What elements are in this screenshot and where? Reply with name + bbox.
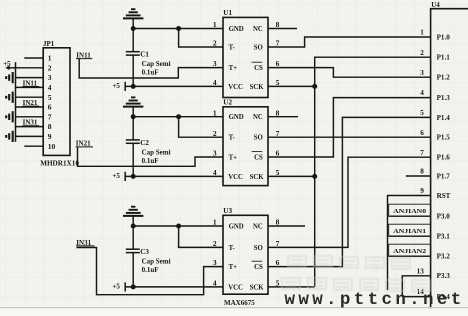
power +5 port at U2 VCC bbox=[112, 172, 125, 181]
svg-text:VCC: VCC bbox=[228, 84, 243, 91]
svg-text:5: 5 bbox=[276, 78, 280, 87]
junction at gnd rail U3 bbox=[131, 224, 136, 229]
svg-text:2: 2 bbox=[420, 49, 424, 57]
svg-text:NC: NC bbox=[253, 26, 263, 33]
svg-text:5: 5 bbox=[276, 168, 280, 177]
svg-text:7: 7 bbox=[276, 39, 280, 48]
svg-text:P1.2: P1.2 bbox=[437, 74, 451, 82]
svg-text:8: 8 bbox=[420, 168, 424, 176]
U1 left pin names bbox=[228, 26, 244, 91]
left vertical rail bbox=[15, 62, 17, 142]
IC U2 MAX6675 box bbox=[223, 107, 268, 186]
svg-text:SO: SO bbox=[254, 245, 263, 252]
wire +5 to U1 pin4 (VCC) bbox=[125, 85, 223, 87]
net label IN31 at JP1 pin 8 bbox=[22, 119, 39, 127]
wire gnd row to U1 pin1 bbox=[133, 28, 223, 30]
svg-text:T+: T+ bbox=[229, 264, 238, 271]
U3 left pin names bbox=[228, 223, 244, 291]
JP1 pin 5 wire bbox=[16, 96, 44, 98]
svg-text:U3: U3 bbox=[223, 207, 232, 215]
net label IN21 wire bbox=[76, 140, 223, 167]
svg-text:U2: U2 bbox=[223, 99, 232, 107]
svg-text:P1.4: P1.4 bbox=[437, 114, 451, 122]
U2 pin8 NC stub bbox=[268, 116, 298, 118]
ground symbol at JP1 pin 3 bbox=[6, 72, 13, 83]
svg-text:9: 9 bbox=[420, 187, 424, 195]
wire U1 CS to U4 pin3 bbox=[268, 68, 431, 78]
svg-text:0.1uF: 0.1uF bbox=[142, 69, 159, 77]
svg-text:JP1: JP1 bbox=[43, 40, 55, 48]
svg-text:1: 1 bbox=[213, 20, 217, 29]
svg-text:Cap Semi: Cap Semi bbox=[142, 148, 171, 156]
svg-text:6: 6 bbox=[276, 59, 280, 68]
svg-text:+5: +5 bbox=[112, 283, 120, 291]
svg-text:3: 3 bbox=[420, 69, 424, 77]
svg-text:VCC: VCC bbox=[228, 174, 243, 181]
power +5 port at U3 VCC bbox=[112, 282, 125, 291]
JP1 pin 8 wire bbox=[16, 126, 44, 128]
ground symbol above C1 bbox=[123, 9, 143, 28]
svg-text:4: 4 bbox=[420, 89, 424, 97]
svg-text:ANJIAN0: ANJIAN0 bbox=[393, 209, 426, 215]
svg-text:NC: NC bbox=[253, 114, 263, 121]
net label ANJIAN1 at U4 pin11 bbox=[389, 224, 431, 236]
U1 right pin numbers 8-5 bbox=[276, 20, 280, 87]
wire branch to U2 pin2 bbox=[179, 117, 223, 138]
wire U3 SCK to bus bbox=[268, 286, 315, 288]
svg-text:3: 3 bbox=[213, 149, 217, 158]
JP1 pin 1 wire bbox=[24, 57, 43, 59]
svg-text:8: 8 bbox=[48, 122, 52, 131]
svg-text:VCC: VCC bbox=[228, 284, 243, 291]
svg-text:T-: T- bbox=[229, 245, 236, 252]
wire branch to U3 pin2 bbox=[179, 226, 223, 247]
svg-text:4: 4 bbox=[213, 279, 217, 288]
svg-text:2: 2 bbox=[213, 239, 217, 248]
ground symbol above C3 bbox=[123, 207, 143, 226]
faint gray watermark blocks bbox=[282, 256, 430, 291]
ground symbol at JP1 pin 5 bbox=[6, 92, 13, 103]
capacitor C1 bbox=[126, 29, 140, 87]
svg-text:P1.1: P1.1 bbox=[437, 54, 451, 62]
U1 right pin names bbox=[250, 26, 265, 91]
svg-text:+5: +5 bbox=[112, 172, 120, 180]
wire U2 CS to U4 pin4 bbox=[268, 98, 431, 157]
svg-text:T+: T+ bbox=[229, 65, 238, 72]
svg-text:MHDR1X10: MHDR1X10 bbox=[40, 160, 79, 168]
svg-text:5: 5 bbox=[420, 109, 424, 117]
power +5 port at U1 VCC bbox=[112, 82, 125, 91]
svg-text:1: 1 bbox=[213, 108, 217, 117]
svg-text:0.1uF: 0.1uF bbox=[142, 157, 159, 165]
svg-text:SO: SO bbox=[254, 44, 263, 51]
svg-text:7: 7 bbox=[48, 112, 52, 121]
U1 pin8 NC stub bbox=[268, 28, 297, 30]
svg-text:GND: GND bbox=[229, 223, 244, 230]
light gray sheet border line bbox=[0, 307, 468, 309]
svg-text:7: 7 bbox=[420, 149, 424, 157]
svg-text:13: 13 bbox=[417, 267, 425, 275]
svg-text:6: 6 bbox=[48, 103, 52, 112]
svg-text:6: 6 bbox=[420, 129, 424, 137]
wire +5 to U3 pin4 (VCC) bbox=[125, 286, 223, 288]
JP1 pin 6 wire bbox=[16, 106, 44, 108]
IC U1 MAX6675 box bbox=[223, 17, 268, 97]
svg-text:4: 4 bbox=[213, 78, 217, 87]
svg-text:5: 5 bbox=[48, 93, 52, 102]
JP1 pin 3 wire bbox=[16, 77, 44, 79]
svg-text:3: 3 bbox=[213, 258, 217, 267]
svg-text:5: 5 bbox=[276, 279, 280, 288]
wire branch to U1 pin2 bbox=[179, 29, 223, 48]
svg-text:SCK: SCK bbox=[250, 174, 265, 181]
junction at U1 pin1/pin2 branch bbox=[176, 26, 181, 31]
svg-text:C3: C3 bbox=[140, 248, 149, 256]
svg-text:P1.7: P1.7 bbox=[437, 172, 451, 180]
svg-text:7: 7 bbox=[276, 239, 280, 248]
svg-text:2: 2 bbox=[213, 129, 217, 138]
U2 left pin names bbox=[228, 114, 244, 181]
svg-text:ANJIAN2: ANJIAN2 bbox=[393, 249, 426, 255]
U3 pin8 NC stub bbox=[268, 225, 305, 227]
net label IN11 wire bbox=[76, 51, 223, 78]
U1 left pin numbers 1-4 bbox=[213, 20, 217, 87]
svg-text:10: 10 bbox=[48, 142, 56, 151]
wire gnd row to U3 pin1 bbox=[133, 225, 223, 227]
svg-text:SO: SO bbox=[254, 135, 263, 142]
svg-text:P3.3: P3.3 bbox=[437, 272, 451, 280]
svg-text:GND: GND bbox=[229, 26, 244, 33]
svg-text:0.1uF: 0.1uF bbox=[142, 266, 159, 274]
connector U4 box bbox=[431, 9, 468, 316]
U4 pin8 stub bbox=[406, 175, 431, 177]
svg-text:6: 6 bbox=[276, 149, 280, 158]
net label IN11 at JP1 pin 4 bbox=[22, 79, 39, 87]
wire U2 SO to U4 pin6 bbox=[268, 136, 431, 138]
JP1 pin 9 wire bbox=[16, 135, 44, 137]
svg-text:7: 7 bbox=[276, 129, 280, 138]
power +5 port at JP1 pin 2 bbox=[3, 60, 15, 70]
U3 right pin names bbox=[250, 223, 265, 291]
svg-text:GND: GND bbox=[229, 114, 244, 121]
U4 pin names bbox=[437, 33, 451, 301]
svg-text:1: 1 bbox=[48, 54, 52, 63]
junction at U2 pin1/pin2 branch bbox=[176, 114, 181, 119]
wire U4 RST pin9 with vertical bbox=[388, 196, 431, 291]
junction cap C1 bottom bbox=[131, 84, 136, 89]
IC U3 MAX6675 box bbox=[223, 215, 268, 294]
wire U4 pin13 bbox=[402, 276, 430, 297]
capacitor C2 bbox=[126, 117, 140, 177]
junction SCK U1 bbox=[312, 84, 317, 89]
JP1 pin 10 wire bbox=[24, 145, 43, 147]
svg-text:NC: NC bbox=[253, 223, 263, 230]
svg-text:U4: U4 bbox=[431, 1, 440, 9]
wire +5 to U2 pin4 (VCC) bbox=[125, 175, 223, 177]
junction cap C2 bottom bbox=[131, 174, 136, 179]
svg-text:P3.1: P3.1 bbox=[437, 233, 451, 241]
svg-text:2: 2 bbox=[213, 39, 217, 48]
wire U1 SO to U4 pin1 bbox=[268, 37, 431, 47]
U3 right pin numbers 8-5 bbox=[276, 218, 280, 288]
svg-text:P3.2: P3.2 bbox=[437, 253, 451, 261]
wire U2 SCK to bus bbox=[268, 175, 315, 177]
svg-text:+5: +5 bbox=[112, 82, 120, 90]
svg-text:P1.6: P1.6 bbox=[437, 154, 451, 162]
ground symbol at JP1 pin 9 bbox=[6, 131, 13, 142]
svg-text:1: 1 bbox=[420, 29, 424, 37]
svg-text:CS: CS bbox=[254, 264, 263, 271]
U2 right pin numbers 8-5 bbox=[276, 108, 280, 177]
junction at gnd rail U1 bbox=[131, 26, 136, 31]
ground symbol at JP1 pin 7 bbox=[6, 111, 13, 122]
JP1 pin 4 wire bbox=[16, 86, 44, 88]
wire U3 CS to U4 pin5 bbox=[268, 117, 431, 266]
U3 left pin numbers 1-4 bbox=[213, 218, 217, 288]
svg-text:4: 4 bbox=[48, 83, 52, 92]
wire U4 pin14 bbox=[402, 296, 430, 298]
junction at U3 pin1/pin2 branch bbox=[176, 224, 181, 229]
svg-text:C1: C1 bbox=[140, 51, 149, 59]
svg-text:CS: CS bbox=[254, 65, 263, 72]
ground symbol above C2 bbox=[123, 97, 143, 116]
bottom margin strip bbox=[0, 308, 468, 316]
junction cap C3 bottom bbox=[131, 284, 136, 289]
svg-text:4: 4 bbox=[213, 168, 217, 177]
svg-text:8: 8 bbox=[276, 218, 280, 227]
svg-text:T-: T- bbox=[229, 44, 236, 51]
svg-text:P1.0: P1.0 bbox=[437, 33, 451, 41]
net label IN21 at JP1 pin 6 bbox=[22, 99, 39, 107]
svg-text:1: 1 bbox=[213, 218, 217, 227]
U4 pin numbers bbox=[417, 29, 425, 297]
JP1 pin 7 wire bbox=[16, 116, 44, 118]
svg-text:Cap Semi: Cap Semi bbox=[142, 258, 171, 266]
svg-text:CS: CS bbox=[254, 154, 263, 161]
wire U1 SCK to bus bbox=[268, 85, 315, 87]
svg-text:www.pttcn.net: www.pttcn.net bbox=[285, 290, 465, 310]
svg-text:P1.3: P1.3 bbox=[437, 94, 451, 102]
svg-text:2: 2 bbox=[48, 63, 52, 72]
wire SCK bus vertical bbox=[315, 57, 431, 287]
svg-text:3: 3 bbox=[48, 73, 52, 82]
svg-text:P1.5: P1.5 bbox=[437, 134, 451, 142]
svg-text:MAX6675: MAX6675 bbox=[224, 299, 255, 307]
net label ANJIAN0 at U4 pin10 bbox=[389, 204, 431, 216]
svg-text:SCK: SCK bbox=[250, 84, 265, 91]
JP1 pin numbers 1-10 bbox=[48, 54, 56, 151]
svg-text:ANJIAN1: ANJIAN1 bbox=[393, 229, 426, 235]
JP1 pin 2 wire bbox=[16, 67, 44, 69]
svg-text:8: 8 bbox=[276, 108, 280, 117]
svg-text:P3.0: P3.0 bbox=[437, 213, 451, 221]
svg-text:T-: T- bbox=[229, 135, 236, 142]
U2 left pin numbers 1-4 bbox=[213, 108, 217, 177]
junction SCK U2 bbox=[312, 174, 317, 179]
net label IN31 wire bbox=[76, 239, 223, 295]
svg-text:SCK: SCK bbox=[250, 284, 265, 291]
svg-text:Cap Semi: Cap Semi bbox=[142, 60, 171, 68]
wire U3 SO to U4 pin7 bbox=[268, 157, 431, 247]
svg-text:T+: T+ bbox=[229, 154, 238, 161]
capacitor C3 bbox=[126, 226, 140, 287]
junction at gnd rail U2 bbox=[131, 114, 136, 119]
connector JP1 box bbox=[43, 48, 70, 156]
svg-text:9: 9 bbox=[48, 132, 52, 141]
svg-text:3: 3 bbox=[213, 59, 217, 68]
svg-text:C2: C2 bbox=[140, 139, 149, 147]
svg-text:RST: RST bbox=[437, 192, 451, 200]
wire gnd row to U2 pin1 bbox=[133, 116, 223, 118]
net label ANJIAN2 at U4 pin12 bbox=[389, 244, 431, 256]
U2 right pin names bbox=[250, 114, 265, 181]
svg-text:6: 6 bbox=[276, 258, 280, 267]
svg-text:8: 8 bbox=[276, 20, 280, 29]
svg-text:U1: U1 bbox=[223, 9, 232, 17]
